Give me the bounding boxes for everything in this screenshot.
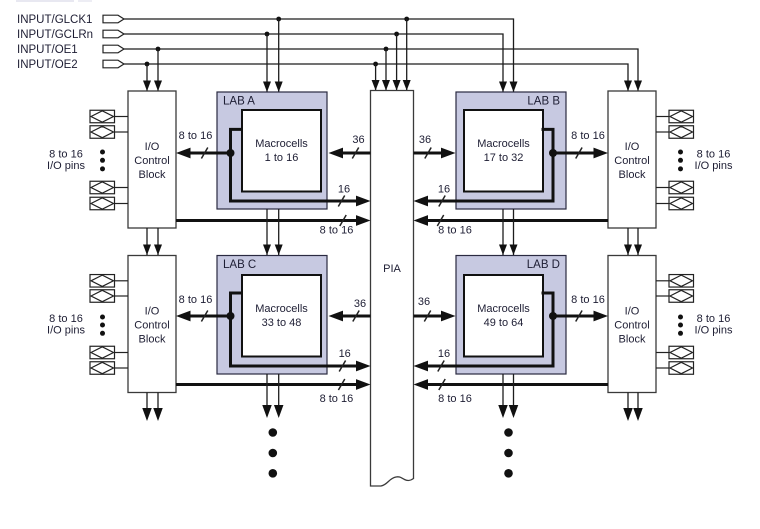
svg-text:36: 36 — [354, 298, 366, 310]
bus width slash UL 16 — [338, 196, 344, 207]
label LAB D macrocells — [477, 303, 530, 329]
PIA block — [371, 91, 414, 487]
right upper I/O pins pin symbol 2 — [656, 126, 694, 139]
svg-text:INPUT/GLCK1: INPUT/GLCK1 — [17, 14, 92, 26]
bus PIA to LAB A (36) — [329, 148, 371, 159]
right lower I/O Control Block — [608, 256, 656, 393]
svg-text:16: 16 — [338, 184, 350, 196]
svg-text:Control: Control — [134, 155, 169, 167]
label left upper I/O Control Block text — [134, 141, 169, 181]
decorative faint remnant — [16, 0, 92, 2]
junction LAB B bus — [549, 149, 557, 157]
LAB D macrocell array box — [464, 275, 543, 357]
wire OE1 — [124, 49, 638, 91]
wires right I/O upper to lower — [624, 228, 632, 255]
bus width slash LR 36 — [424, 311, 430, 322]
svg-text:33 to 48: 33 to 48 — [262, 317, 302, 329]
wire bottom arrow x=513.5 — [509, 374, 519, 418]
left upper I/O pins pin symbol 1 — [90, 110, 128, 123]
bus left I/O to PIA (8 to 16) lower — [176, 379, 371, 390]
svg-text:Control: Control — [614, 155, 649, 167]
svg-text:36: 36 — [352, 134, 364, 146]
svg-text:LAB B: LAB B — [527, 96, 560, 108]
LAB D block — [456, 256, 566, 375]
LAB D bottom outputs — [498, 374, 508, 418]
svg-text:8 to 16: 8 to 16 — [571, 294, 605, 306]
junction GLCK1-LABA — [276, 17, 281, 22]
bus width slash UL bottom — [340, 215, 346, 226]
wire vertical x=158 — [154, 228, 162, 255]
wires LAB A to LAB C — [263, 209, 271, 255]
svg-text:36: 36 — [418, 296, 430, 308]
wire OE2 to left I/O block — [143, 64, 151, 91]
label LAB B — [527, 96, 560, 108]
bus label 8 to 16 at 336.5,233.5 — [320, 225, 354, 237]
svg-text:16: 16 — [438, 348, 450, 360]
bus label 8 to 16 at 195.5,139 — [179, 130, 213, 142]
wire GLCK1 to LAB A — [275, 19, 283, 92]
svg-text:I/O: I/O — [625, 141, 640, 153]
label right upper I/O Control Block text — [614, 141, 649, 181]
LAB A macrocell array box — [242, 110, 321, 192]
svg-text:8 to 16: 8 to 16 — [320, 225, 354, 237]
svg-text:Macrocells: Macrocells — [477, 303, 530, 315]
LAB C bottom outputs — [262, 374, 272, 418]
right I/O block bottom outputs — [623, 393, 633, 422]
svg-text:8 to 16: 8 to 16 — [179, 130, 213, 142]
svg-text:I/O pins: I/O pins — [695, 324, 733, 336]
label left lower I/O pins 8 to 16 I/O pins — [47, 313, 85, 337]
label LAB A — [223, 96, 255, 108]
svg-text:LAB A: LAB A — [223, 96, 255, 108]
label LAB A macrocells — [255, 138, 308, 164]
right upper I/O pins pin symbol 3 — [656, 181, 694, 194]
bus PIA to LAB B (36) — [414, 148, 456, 159]
svg-text:8 to 16: 8 to 16 — [49, 149, 83, 161]
svg-text:8 to 16: 8 to 16 — [320, 393, 354, 405]
wire vertical x=638 — [634, 228, 642, 255]
label INPUT/GCLRn — [17, 29, 93, 41]
LAB B block — [456, 92, 566, 209]
bus label 36 at 358.5,143 — [352, 134, 364, 146]
left lower I/O pins pin symbol 4 — [90, 362, 128, 375]
bus width slash LR 16 — [438, 361, 444, 372]
wires LAB B to LAB D — [499, 209, 507, 255]
bus LAB A macrocell output path (16) to PIA — [231, 129, 371, 206]
bus width slash LL branch — [201, 311, 207, 322]
wire OE2 to PIA — [372, 64, 380, 91]
LAB C macrocell array box — [242, 275, 321, 357]
bus LAB B to right I/O block (8 to 16) — [553, 148, 608, 159]
label right lower I/O pins 8 to 16 I/O pins — [695, 313, 733, 337]
left lower I/O pins pin symbol 3 — [90, 346, 128, 359]
input buffer INPUT/GCLRn — [103, 30, 124, 38]
label INPUT/OE2 — [17, 59, 78, 71]
svg-text:I/O pins: I/O pins — [695, 160, 733, 172]
bus width slash UR branch — [576, 148, 582, 159]
svg-text:I/O: I/O — [625, 306, 640, 318]
bus width slash LR branch — [576, 311, 582, 322]
wire OE1 to left I/O block — [154, 49, 162, 91]
junction LAB A bus — [227, 149, 235, 157]
bus width slash UR bottom — [437, 215, 443, 226]
svg-text:8 to 16: 8 to 16 — [697, 313, 731, 325]
bus width slash UL 36 — [352, 148, 358, 159]
svg-text:Control: Control — [614, 320, 649, 332]
bus width slash LR bottom — [439, 379, 445, 390]
svg-text:8 to 16: 8 to 16 — [49, 313, 83, 325]
left lower I/O Control Block — [128, 256, 176, 393]
svg-text:LAB C: LAB C — [223, 259, 256, 271]
bus right I/O to PIA (8 to 16) lower — [414, 379, 609, 390]
wire OE2 — [124, 64, 628, 91]
wire vertical x=513.5 — [510, 209, 518, 255]
input buffer INPUT/OE1 — [103, 45, 124, 53]
label LAB B macrocells — [477, 138, 530, 164]
left upper I/O pins ellipsis — [100, 150, 105, 172]
bus left I/O to PIA (8 to 16) upper — [176, 215, 371, 226]
label right lower I/O Control Block text — [614, 306, 649, 346]
junction OE2-PIA — [373, 62, 378, 67]
label INPUT/GLCK1 — [17, 14, 92, 26]
svg-text:8 to 16: 8 to 16 — [438, 225, 472, 237]
right upper I/O pins ellipsis — [678, 150, 683, 172]
bus label 16 at 344.7,357 — [339, 348, 351, 360]
bus PIA to LAB D (36) — [414, 311, 456, 322]
left lower I/O pins ellipsis — [100, 315, 105, 336]
right upper I/O pins pin symbol 1 — [656, 110, 694, 123]
bus label 16 at 444,357 — [438, 348, 450, 360]
bus width slash UR 16 — [439, 196, 445, 207]
bus width slash LL 36 — [353, 311, 359, 322]
junction OE1-PIA — [384, 47, 389, 52]
svg-text:Block: Block — [139, 169, 166, 181]
bus width slash UR 36 — [425, 148, 431, 159]
left upper I/O pins pin symbol 4 — [90, 197, 128, 210]
label left upper I/O pins 8 to 16 I/O pins — [47, 149, 85, 173]
svg-text:I/O: I/O — [145, 306, 160, 318]
svg-text:I/O: I/O — [145, 141, 160, 153]
left lower I/O pins pin symbol 2 — [90, 290, 128, 303]
svg-text:49 to 64: 49 to 64 — [484, 317, 524, 329]
wire OE1 to PIA — [382, 49, 390, 91]
wire bottom arrow x=278.7 — [274, 374, 284, 418]
bus label 8 to 16 at 588,303 — [571, 294, 605, 306]
label INPUT/OE1 — [17, 44, 78, 56]
left upper I/O pins pin symbol 2 — [90, 126, 128, 139]
ellipsis below LAB C — [269, 428, 278, 477]
right upper I/O Control Block — [608, 91, 656, 228]
svg-text:16: 16 — [339, 348, 351, 360]
wire bottom arrow x=638 — [633, 393, 643, 422]
bus PIA to LAB C (36) — [329, 311, 371, 322]
bus LAB D macrocell output path (16) to PIA — [414, 293, 554, 371]
wire bottom arrow x=158 — [153, 393, 163, 422]
bus label 16 at 444,192.5 — [438, 184, 450, 196]
svg-text:Macrocells: Macrocells — [255, 138, 308, 150]
svg-text:I/O pins: I/O pins — [47, 324, 85, 336]
bus label 36 at 360,307 — [354, 298, 366, 310]
label LAB C macrocells — [255, 303, 308, 329]
svg-text:8 to 16: 8 to 16 — [571, 130, 605, 142]
bus width slash LL bottom — [338, 379, 344, 390]
bus width slash UL branch — [201, 148, 207, 159]
LAB B macrocell array box — [464, 110, 543, 192]
junction OE1-IOL — [156, 47, 161, 52]
bus right I/O to PIA (8 to 16) upper — [414, 215, 609, 226]
left I/O block bottom outputs — [142, 393, 152, 422]
arrowhead OE1 into right I/O block — [634, 81, 642, 92]
label LAB C — [223, 259, 256, 271]
LAB C block — [217, 256, 327, 375]
svg-text:17 to 32: 17 to 32 — [484, 152, 524, 164]
svg-text:8 to 16: 8 to 16 — [438, 393, 472, 405]
ellipsis below LAB D — [504, 428, 513, 477]
LAB A block — [217, 92, 327, 209]
junction LAB D bus — [549, 312, 557, 320]
right upper I/O pins pin symbol 4 — [656, 197, 694, 210]
bus LAB C macrocell output path (16) to PIA — [231, 293, 371, 371]
bus label 8 to 16 at 455,402 — [438, 393, 472, 405]
bus width slash LL 16 — [339, 361, 345, 372]
bus LAB C to left I/O block (8 to 16) — [176, 311, 231, 322]
wire GCLRn to PIA — [393, 34, 401, 91]
junction LAB C bus — [227, 312, 235, 320]
wire GLCK1 to PIA — [403, 19, 411, 91]
svg-text:Control: Control — [134, 320, 169, 332]
junction GCLRn-PIA — [394, 32, 399, 37]
bus label 8 to 16 at 195.5,303 — [179, 294, 213, 306]
label right upper I/O pins 8 to 16 I/O pins — [695, 149, 733, 173]
junction GLCK1-PIA — [404, 17, 409, 22]
svg-text:PIA: PIA — [383, 263, 401, 275]
label left lower I/O Control Block text — [134, 306, 169, 346]
bus label 8 to 16 at 588,139 — [571, 130, 605, 142]
bus label 36 at 425,143 — [419, 134, 431, 146]
svg-text:Macrocells: Macrocells — [477, 138, 530, 150]
svg-text:Block: Block — [619, 169, 646, 181]
svg-text:1 to 16: 1 to 16 — [265, 152, 299, 164]
svg-text:INPUT/GCLRn: INPUT/GCLRn — [17, 29, 93, 41]
arrowhead OE2 into right I/O block — [624, 81, 632, 92]
bus label 36 at 424,305 — [418, 296, 430, 308]
left lower I/O pins pin symbol 1 — [90, 275, 128, 288]
right lower I/O pins pin symbol 4 — [656, 362, 694, 375]
left upper I/O Control Block — [128, 91, 176, 228]
left upper I/O pins pin symbol 3 — [90, 181, 128, 194]
junction GCLRn-LABA — [265, 32, 270, 37]
arrowhead GLCK1 into LAB B — [510, 82, 518, 93]
svg-text:Macrocells: Macrocells — [255, 303, 308, 315]
arrowhead GCLRn into LAB B — [499, 82, 507, 93]
label PIA — [383, 263, 401, 275]
wire GLCK1 — [124, 19, 514, 92]
wire GCLRn — [124, 34, 503, 92]
wire GCLRn to LAB A — [263, 34, 271, 92]
bus LAB B macrocell output path (16) to PIA — [414, 129, 554, 206]
right lower I/O pins ellipsis — [678, 315, 683, 336]
right lower I/O pins pin symbol 3 — [656, 346, 694, 359]
right lower I/O pins pin symbol 2 — [656, 290, 694, 303]
bus LAB D to right I/O block (8 to 16) — [553, 311, 608, 322]
svg-text:I/O pins: I/O pins — [47, 160, 85, 172]
svg-text:INPUT/OE1: INPUT/OE1 — [17, 44, 78, 56]
bus label 8 to 16 at 336.4,402 — [320, 393, 354, 405]
wires left I/O upper to lower — [143, 228, 151, 255]
bus label 16 at 344,192.5 — [338, 184, 350, 196]
label LAB D — [527, 259, 560, 271]
svg-text:36: 36 — [419, 134, 431, 146]
svg-text:8 to 16: 8 to 16 — [697, 149, 731, 161]
junction OE2-IOL — [145, 62, 150, 67]
svg-text:INPUT/OE2: INPUT/OE2 — [17, 59, 78, 71]
svg-text:16: 16 — [438, 184, 450, 196]
bus label 8 to 16 at 455,233.5 — [438, 225, 472, 237]
svg-text:Block: Block — [139, 334, 166, 346]
svg-text:8 to 16: 8 to 16 — [179, 294, 213, 306]
bus LAB A to left I/O block (8 to 16) — [176, 148, 231, 159]
input buffer INPUT/OE2 — [103, 60, 124, 68]
input buffer INPUT/GLCK1 — [103, 15, 124, 23]
svg-text:LAB D: LAB D — [527, 259, 560, 271]
wire vertical x=278.7 — [275, 209, 283, 255]
svg-text:Block: Block — [619, 334, 646, 346]
right lower I/O pins pin symbol 1 — [656, 275, 694, 288]
